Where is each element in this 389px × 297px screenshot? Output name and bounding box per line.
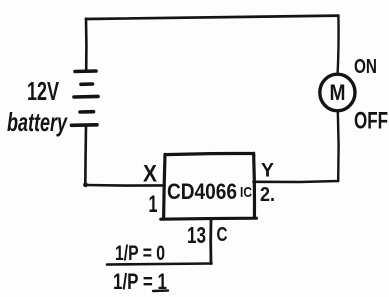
motor M1 <box>320 74 355 111</box>
wire right vertical to motor <box>336 16 339 74</box>
svg-text:13: 13 <box>187 222 206 248</box>
wire battery bottom lead <box>84 126 87 185</box>
wire X horizontal <box>85 184 165 187</box>
wire input line 1/P=0 <box>107 264 212 265</box>
wire Y horizontal <box>254 181 339 182</box>
node junction dot <box>83 182 88 187</box>
svg-text:1: 1 <box>149 191 158 218</box>
battery plate short 1 <box>81 82 93 86</box>
svg-text:ON: ON <box>354 56 377 78</box>
svg-text:12V: 12V <box>27 76 59 106</box>
svg-text:1/P = 0: 1/P = 0 <box>115 242 165 265</box>
svg-text:X: X <box>143 161 157 188</box>
wire top horizontal <box>86 16 338 19</box>
battery plate long 3 <box>72 123 98 127</box>
svg-text:OFF: OFF <box>354 108 388 135</box>
underline under 1 <box>153 289 168 292</box>
svg-text:C: C <box>217 224 228 246</box>
svg-text:battery: battery <box>7 107 68 137</box>
battery B1 top lead <box>85 19 88 71</box>
battery plate long 1 <box>75 69 96 73</box>
svg-text:2.: 2. <box>260 184 275 206</box>
battery plate short 2 <box>80 110 94 114</box>
svg-text:M: M <box>330 80 346 105</box>
wire pin 13 vertical <box>209 219 212 264</box>
svg-text:Y: Y <box>261 161 274 182</box>
wire motor to Y <box>337 111 340 181</box>
battery plate long 2 <box>74 95 98 99</box>
svg-text:IC: IC <box>240 184 252 201</box>
svg-text:CD4066: CD4066 <box>167 179 237 204</box>
IC U1 CD4066 box <box>161 153 257 219</box>
